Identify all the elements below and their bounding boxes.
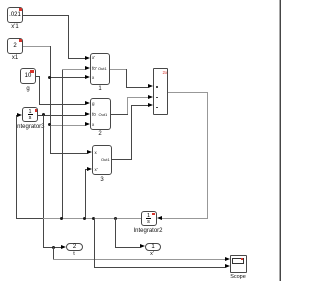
junction feedback/f0'	[60, 217, 63, 220]
wire feedback to subsystem 1 pin f0', vertical segment	[62, 69, 63, 219]
arrow into subsystem 2 pin g	[85, 101, 90, 105]
pin label Out1 (subsystem 2 output)	[99, 112, 108, 117]
pin label x (subsystem 1 in3)	[92, 75, 94, 80]
wire to scope in1, horizontal segment	[53, 259, 226, 260]
arrow into subsystem 1 pin x'	[85, 56, 90, 60]
arrow into Integrator3 input	[17, 113, 22, 117]
arrow into subsystem 3 pin x	[87, 150, 92, 154]
arrow into sum in1	[148, 84, 153, 88]
label Scope	[230, 274, 246, 280]
constant block x1 (value 2)	[7, 38, 23, 54]
wire g out, vertical segment	[39, 76, 40, 104]
constant block g (value 10)	[20, 68, 36, 84]
integrator block Integrator2 (1/s, mirrored)	[141, 211, 157, 226]
pin label x (subsystem 3 in1)	[95, 150, 97, 155]
scope screen	[232, 258, 244, 264]
label x1	[12, 55, 18, 61]
wire subsystem 3 out, vertical segment	[131, 105, 132, 160]
red marker on g	[30, 70, 34, 73]
label x'	[150, 251, 154, 257]
wire subsystem 3 out, horizontal segment	[112, 159, 131, 160]
red marker on Integrator3	[35, 109, 37, 112]
junction x1/subsystem2	[48, 123, 51, 126]
arrow into scope in2	[225, 264, 230, 268]
junction Integrator3 out	[42, 113, 45, 116]
arrow into scope in1	[225, 257, 230, 261]
wire Integrator3 out branch to outport 2	[43, 247, 62, 248]
arrow into subsystem 3 pin x'	[87, 167, 92, 171]
junction feedback/outport1	[114, 217, 117, 220]
pin label f0 (subsystem 2 in2)	[92, 112, 96, 117]
wire x1 bus, vertical segment	[50, 46, 51, 153]
pin label f0' (subsystem 1 in2)	[92, 66, 97, 71]
scope block	[230, 255, 247, 273]
arrow into outport 2	[61, 245, 66, 249]
wire x1 to subsystem 1 pin x	[50, 77, 86, 78]
wire subsystem 1 out, vertical segment	[126, 69, 127, 87]
wire Integrator3 out to subsystem 2 pin f0	[38, 115, 85, 116]
wire branch down to scope in1, vertical segment	[53, 247, 54, 259]
integrator block Integrator3 (1/s)	[22, 107, 38, 122]
wire sum out, horizontal segment	[168, 92, 207, 93]
sum block	[153, 68, 168, 115]
label Integrator2	[133, 228, 162, 234]
wire g to subsystem 2 pin g	[39, 104, 86, 105]
wire x1 out, horizontal segment	[23, 46, 50, 47]
label Integrator3	[15, 124, 44, 130]
wire feedback to Integrator3 input, stub	[16, 115, 18, 116]
wire Integrator2 out feedback, dark segment	[16, 218, 43, 219]
wire x'1 out, vertical segment	[68, 15, 69, 58]
junction x1/subsystem1	[48, 76, 51, 79]
constant block x'1 (value .021)	[7, 7, 23, 23]
wire to subsystem 3 pin x', stub	[85, 169, 88, 170]
subsystem block 2	[90, 98, 111, 130]
arrow into outport 1	[140, 244, 145, 248]
subsystem block 3	[92, 145, 112, 175]
red marker on scope	[241, 258, 243, 260]
label 3	[100, 177, 103, 183]
label t	[73, 251, 75, 257]
wire Integrator2 out feedback, gray segment	[43, 218, 141, 219]
subsystem block 1	[90, 53, 110, 85]
arrow into subsystem 2 pin x	[85, 122, 90, 126]
arrow into sum in3	[148, 103, 153, 107]
pin label x' (subsystem 3 in2)	[95, 167, 98, 172]
pin label x' (subsystem 1 in1)	[92, 55, 95, 60]
arrow into subsystem 1 pin x	[85, 75, 90, 79]
wire subsystem 2 out, horizontal segment	[111, 114, 128, 115]
junction outport2/scope	[52, 246, 55, 249]
wire x1 to subsystem 2 pin x	[50, 125, 86, 126]
label 2	[98, 131, 101, 137]
pin label Out1 (subsystem 3 output)	[101, 157, 110, 162]
wire to outport 1, horizontal segment	[115, 247, 141, 248]
junction feedback/subsystem3 x'	[83, 217, 86, 220]
window border (right edge)	[279, 0, 280, 281]
outport block 1 (x')	[145, 243, 161, 251]
wire g out, horizontal stub	[36, 76, 39, 77]
red marker on x'1	[19, 8, 22, 11]
wire feedback to scope in2, vertical segment	[94, 218, 95, 267]
arrow into subsystem 2 pin f0	[85, 112, 90, 116]
arrow into sum in2	[148, 95, 153, 99]
wire Integrator3 out branch, vertical segment	[43, 115, 44, 248]
wire to sum in3	[131, 105, 149, 106]
arrow into Integrator2 input (points left)	[157, 216, 162, 220]
wire sum out loop to Integrator2 input	[161, 218, 208, 219]
arrow into subsystem 1 pin f0'	[85, 66, 90, 70]
wire to scope in2, horizontal segment	[94, 267, 226, 268]
wire to sum in1	[126, 87, 148, 88]
label 1	[98, 86, 101, 92]
wire x'1 to subsystem 1 pin x'	[68, 58, 85, 59]
pin label Out1 (subsystem 1 output)	[98, 66, 107, 71]
red marker 2x on sum block	[163, 70, 168, 75]
sum port sign marks	[156, 86, 158, 88]
pin label x (subsystem 2 in3)	[92, 122, 94, 127]
outport block 2 (t)	[66, 243, 83, 251]
wire subsystem 1 out, horizontal segment	[110, 69, 127, 70]
pin label g (subsystem 2 in1)	[92, 101, 95, 106]
wire to subsystem 1 pin f0', horizontal segment	[62, 69, 86, 70]
wire sum out loop, vertical segment	[207, 92, 208, 219]
red marker on x1	[19, 39, 22, 42]
label x'1	[11, 24, 18, 30]
wire feedback to Integrator3, vertical segment	[16, 115, 17, 219]
red marker on Integrator2	[152, 213, 155, 215]
junction feedback/scope in2	[92, 217, 95, 220]
wire feedback to subsystem 3 pin x', vertical segment	[85, 169, 86, 218]
label g	[26, 86, 29, 92]
wire to sum in2	[127, 97, 148, 98]
wire feedback to outport 1, vertical segment	[115, 218, 116, 247]
wire x'1 out, horizontal segment	[23, 15, 69, 16]
wire x1 to subsystem 3 pin x	[50, 153, 88, 154]
wire subsystem 2 out, vertical segment	[127, 97, 128, 114]
